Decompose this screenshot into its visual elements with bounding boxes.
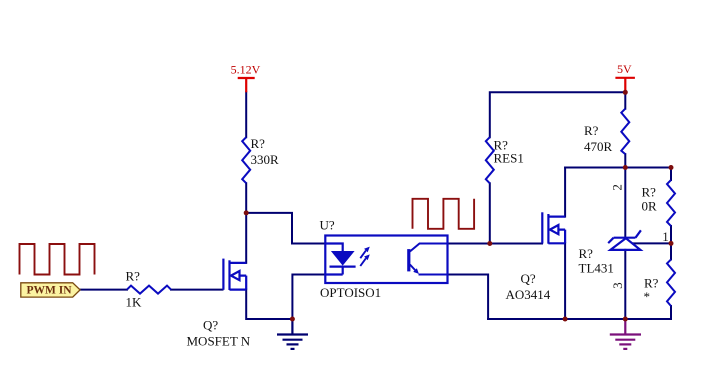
svg-text:OPTOISO1: OPTOISO1 (320, 285, 381, 300)
svg-text:1: 1 (662, 229, 669, 244)
svg-text:470R: 470R (584, 139, 613, 154)
svg-text:R?: R? (584, 123, 599, 138)
svg-text:Q?: Q? (203, 318, 218, 333)
svg-text:R?: R? (642, 185, 657, 200)
svg-text:1K: 1K (126, 295, 143, 310)
svg-text:PWM IN: PWM IN (27, 285, 73, 297)
svg-text:*: * (644, 289, 651, 304)
svg-text:0R: 0R (642, 199, 658, 214)
svg-text:R?: R? (251, 136, 266, 151)
svg-text:R?: R? (126, 269, 141, 284)
svg-text:MOSFET N: MOSFET N (187, 334, 251, 349)
svg-text:RES1: RES1 (494, 151, 524, 166)
svg-text:TL431: TL431 (579, 261, 614, 276)
svg-text:Q?: Q? (521, 271, 536, 286)
svg-text:5.12V: 5.12V (231, 63, 261, 77)
svg-text:R?: R? (579, 246, 594, 261)
svg-text:5V: 5V (617, 62, 632, 76)
svg-text:AO3414: AO3414 (506, 287, 551, 302)
svg-text:U?: U? (320, 218, 335, 233)
svg-text:3: 3 (610, 282, 625, 289)
svg-text:2: 2 (610, 184, 625, 191)
svg-text:330R: 330R (251, 152, 280, 167)
